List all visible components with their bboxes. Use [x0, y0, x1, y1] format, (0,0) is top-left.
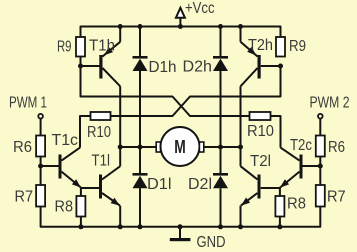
wire T2h collector down	[240, 86, 242, 147]
wire D2h anode down	[220, 71, 222, 147]
transistor T1h collector	[103, 68, 121, 86]
svg-text:R6: R6	[13, 139, 32, 156]
wire D2l anode down	[220, 188, 222, 227]
wire rail to D1h	[139, 27, 141, 58]
ground symbol stem	[179, 227, 181, 239]
node rail D2l	[218, 224, 223, 229]
transistor T1l base bar	[99, 175, 102, 199]
node rail T2l	[238, 224, 243, 229]
resistor R10 (left)	[91, 112, 111, 120]
motor terminal left	[156, 142, 160, 152]
transistor T1l collector	[102, 166, 120, 179]
wire motor left	[120, 146, 156, 148]
svg-text:T1h: T1h	[89, 38, 115, 55]
transistor T1c collector	[62, 148, 81, 161]
svg-text:R10: R10	[87, 124, 111, 141]
svg-text:+Vcc: +Vcc	[185, 0, 215, 17]
transistor T2c emitter arrow (NPN)	[280, 179, 289, 187]
wire T2l collector up	[240, 147, 242, 166]
diode D1l	[133, 176, 148, 189]
node T2h base junction	[278, 64, 283, 69]
diode D1h	[133, 59, 148, 71]
node motor line T2 junction	[238, 145, 243, 150]
wire T2c base	[303, 165, 321, 167]
wire PWM2 to R6	[319, 118, 321, 135]
svg-text:R10: R10	[247, 123, 274, 140]
svg-text:T2l: T2l	[250, 153, 271, 170]
transistor T2h emitter arrow (PNP)	[247, 47, 256, 55]
node rail T1h	[118, 24, 123, 29]
+Vcc power symbol	[176, 8, 185, 18]
wire T1c base	[41, 165, 59, 167]
node rail D1l	[138, 224, 143, 229]
resistor R9 (left)	[76, 37, 85, 57]
svg-text:M: M	[174, 136, 186, 157]
svg-text:R8: R8	[55, 198, 74, 215]
wire R6 to R7 right	[319, 157, 321, 186]
wire PWM1 to R6	[40, 118, 42, 135]
wire motor line to D2l	[220, 147, 222, 174]
transistor T2l base bar	[258, 175, 261, 199]
wire T1h emitter to rail	[119, 27, 121, 42]
transistor T1c base bar	[59, 155, 62, 179]
motor terminal right	[199, 142, 203, 152]
transistor T2c emitter	[280, 172, 300, 188]
wire +Vcc arrow stub	[179, 17, 181, 27]
transistor T2l emitter	[241, 193, 258, 206]
diode D1h cathode bar	[133, 56, 148, 59]
svg-text:T1l: T1l	[92, 153, 111, 170]
wire +Vcc supply rail	[81, 27, 281, 38]
wire cross net: R10 left to T2h base	[111, 66, 281, 116]
diode D2h	[213, 59, 228, 71]
transistor T1h emitter	[103, 42, 121, 57]
wire R8 right bottom stub	[279, 217, 281, 227]
resistor R10 (right)	[250, 112, 271, 120]
diode D2l cathode bar	[213, 173, 228, 176]
wire motor right	[204, 146, 241, 148]
svg-text:PWM 1: PWM 1	[9, 94, 47, 111]
resistor R7 (left)	[36, 185, 45, 207]
svg-text:D2l: D2l	[188, 176, 212, 193]
wire rail to D2h	[220, 27, 222, 58]
node motor line D1 junction	[138, 145, 143, 150]
wire T1l collector up	[119, 147, 121, 166]
svg-text:T2h: T2h	[248, 37, 273, 54]
resistor R6 (left)	[36, 136, 45, 157]
wire R8 right top stub	[279, 188, 281, 196]
svg-text:D1h: D1h	[149, 59, 177, 76]
wire T1c emitter to T1l base	[81, 187, 99, 189]
diode D2h cathode bar	[213, 56, 228, 59]
transistor T2c base bar	[300, 155, 303, 179]
transistor T1l emitter	[102, 193, 120, 206]
svg-text:D1l: D1l	[147, 176, 172, 193]
terminal PWM2	[318, 114, 323, 119]
wire T1l emitter down	[119, 206, 121, 227]
diode D2l	[213, 176, 228, 189]
resistor R8 (left)	[76, 196, 85, 217]
node T1c base junction	[38, 164, 43, 169]
transistor T2h emitter	[241, 42, 258, 57]
transistor T1l emitter arrow (NPN)	[111, 198, 120, 206]
svg-text:R7: R7	[327, 188, 346, 205]
wire R8 left top stub	[80, 188, 82, 196]
motor M	[161, 127, 200, 166]
svg-text:R8: R8	[287, 195, 306, 212]
resistor R9 (right)	[276, 37, 285, 57]
node rail T1l	[118, 224, 123, 229]
wire T2h emitter to rail	[240, 27, 242, 42]
wire R9 left bottom to node	[80, 57, 82, 68]
wire T2h base	[261, 65, 281, 67]
svg-text:R9: R9	[57, 38, 72, 55]
wire motor line to D1l	[139, 147, 141, 174]
transistor T2l emitter arrow (NPN)	[241, 198, 250, 206]
transistor T2c collector	[281, 148, 300, 161]
svg-text:PWM 2: PWM 2	[310, 94, 350, 111]
transistor T2h base bar	[258, 55, 261, 79]
svg-text:T2c: T2c	[290, 137, 312, 154]
diode D1l cathode bar	[133, 173, 148, 176]
svg-text:R7: R7	[15, 188, 34, 205]
wire D1h anode down	[139, 71, 141, 147]
transistor T1c emitter	[62, 172, 82, 188]
transistor T1h base bar	[99, 55, 102, 79]
svg-text:R6: R6	[328, 139, 345, 156]
wire T2l emitter down	[240, 206, 242, 227]
node rail T2h	[238, 24, 243, 29]
resistor R6 (right)	[316, 136, 325, 157]
transistor T1c emitter arrow (NPN)	[72, 179, 81, 187]
transistor T2h collector	[241, 68, 258, 86]
svg-text:GND: GND	[197, 234, 226, 251]
wire T2c emitter to T2l base	[261, 187, 280, 189]
wire R6 to R7 left	[40, 157, 42, 186]
wire R10 left to T1c collector	[80, 116, 91, 148]
node +Vcc junction	[178, 24, 183, 29]
node rail R8 right	[277, 224, 282, 229]
node T1h base junction	[78, 64, 83, 69]
wire cross net: T1h base to R10 right	[81, 66, 250, 116]
node motor line T1 junction	[118, 145, 123, 150]
node rail R8 left	[78, 224, 83, 229]
svg-text:D2h: D2h	[183, 58, 213, 75]
node GND junction	[178, 224, 183, 229]
wire T1h base	[81, 65, 100, 67]
transistor T1h emitter arrow (PNP)	[104, 47, 113, 55]
svg-text:T1c: T1c	[52, 132, 79, 149]
wire D1l anode down	[139, 188, 141, 227]
transistor T2l collector	[241, 166, 258, 179]
node rail D2h	[218, 24, 223, 29]
node motor line D2 junction	[218, 145, 223, 150]
wire ground rail	[41, 207, 321, 227]
wire T1h collector down	[119, 86, 121, 147]
wire R8 left bottom stub	[80, 217, 82, 227]
svg-text:R9: R9	[289, 38, 306, 55]
wire R10 right to T2c collector	[271, 116, 281, 148]
ground symbol	[170, 238, 191, 241]
resistor R8 (right)	[275, 196, 284, 217]
terminal PWM1	[38, 114, 43, 119]
resistor R7 (right)	[316, 185, 325, 207]
node rail D1h	[138, 24, 143, 29]
node T2c base junction	[318, 164, 323, 169]
